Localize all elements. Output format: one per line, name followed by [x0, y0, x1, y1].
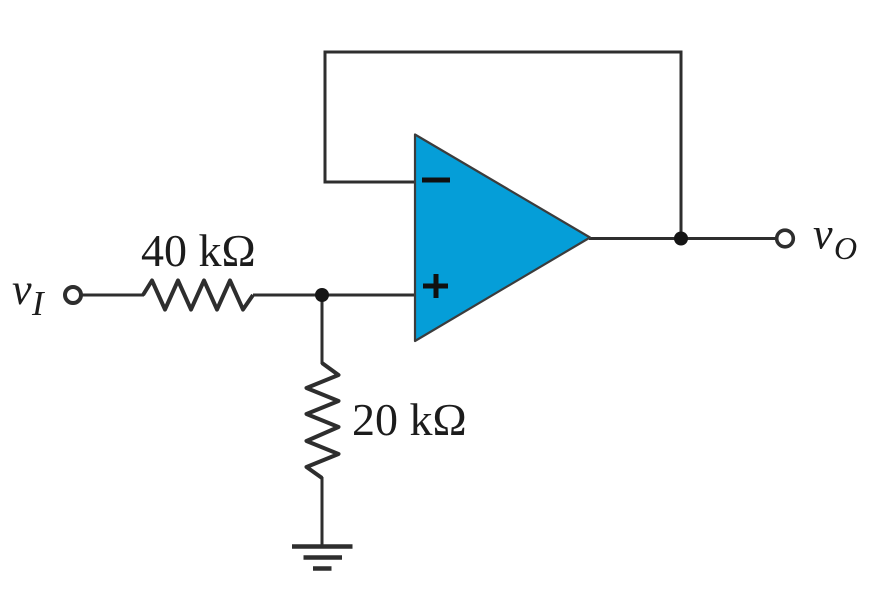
- svg-text:v: v: [813, 210, 833, 259]
- svg-text:20 kΩ: 20 kΩ: [352, 394, 467, 445]
- svg-text:O: O: [834, 230, 857, 266]
- svg-text:40 kΩ: 40 kΩ: [141, 225, 256, 276]
- svg-text:v: v: [12, 265, 32, 314]
